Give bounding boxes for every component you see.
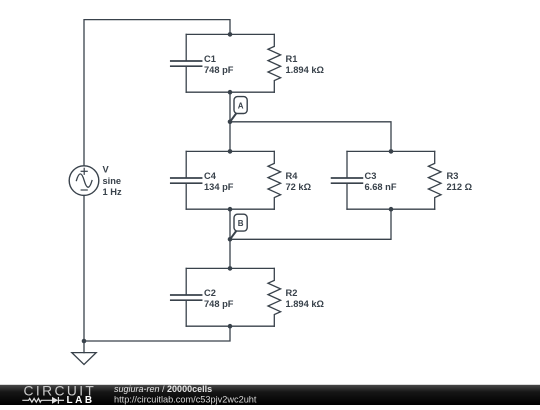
node dot top C1 <box>228 32 233 37</box>
label C4 <box>204 171 234 192</box>
svg-text:C1: C1 <box>204 54 216 64</box>
label C2 <box>204 288 234 309</box>
label R1 <box>286 54 325 75</box>
svg-text:R2: R2 <box>286 288 298 298</box>
wire node A vertical <box>229 92 231 151</box>
label C3 <box>365 171 397 192</box>
svg-text:sine: sine <box>103 176 122 186</box>
resistor R1 <box>230 34 281 92</box>
wire node B horizontal to C3 <box>230 209 391 239</box>
svg-text:212 Ω: 212 Ω <box>447 182 473 192</box>
voltage source V <box>69 166 99 196</box>
svg-text:R4: R4 <box>286 171 299 181</box>
svg-text:C2: C2 <box>204 288 216 298</box>
svg-text:134 pF: 134 pF <box>204 182 234 192</box>
node dot bottom C1 <box>228 90 233 95</box>
resistor R2 <box>230 268 281 326</box>
svg-text:V: V <box>103 165 110 175</box>
svg-text:C3: C3 <box>365 171 377 181</box>
logo diode <box>52 397 58 404</box>
capacitor C4 <box>171 151 230 209</box>
svg-text:72 kΩ: 72 kΩ <box>286 182 312 192</box>
svg-text:http://circuitlab.com/c53pjv2w: http://circuitlab.com/c53pjv2wc2uht <box>114 394 257 404</box>
svg-text:1 Hz: 1 Hz <box>103 187 122 197</box>
svg-text:LAB: LAB <box>67 395 95 405</box>
svg-text:R1: R1 <box>286 54 298 64</box>
node A junction <box>228 120 233 125</box>
svg-text:R3: R3 <box>447 171 459 181</box>
svg-text:6.68 nF: 6.68 nF <box>365 182 397 192</box>
svg-text:sugiura-ren / 20000cells: sugiura-ren / 20000cells <box>114 384 212 394</box>
node B junction <box>228 237 233 242</box>
capacitor C2 <box>171 268 230 326</box>
resistor R4 <box>230 151 281 209</box>
node dot top C4 <box>228 149 233 154</box>
svg-text:1.894 kΩ: 1.894 kΩ <box>286 299 325 309</box>
svg-text:A: A <box>238 102 244 111</box>
label C1 <box>204 54 234 75</box>
node dot bottom C4 <box>228 207 233 212</box>
wire bottom return <box>84 326 230 341</box>
resistor R3 <box>391 151 441 209</box>
capacitor C3 <box>332 151 391 209</box>
logo resistor squiggle <box>22 397 64 404</box>
label V source <box>103 165 122 198</box>
wire left rail bottom <box>83 195 85 352</box>
svg-text:748 pF: 748 pF <box>204 65 234 75</box>
node B label <box>230 214 247 239</box>
capacitor C1 <box>171 34 230 92</box>
label R2 <box>286 288 325 309</box>
wire node A horizontal to C3 <box>230 122 391 152</box>
node A label <box>230 97 247 122</box>
wire left rail top <box>84 20 230 166</box>
svg-text:B: B <box>238 219 244 228</box>
svg-text:1.894 kΩ: 1.894 kΩ <box>286 65 325 75</box>
node dot top C3 <box>389 149 394 154</box>
node dot ground <box>82 339 87 344</box>
label R3 <box>447 171 473 192</box>
node dot bottom C2 <box>228 324 233 329</box>
svg-text:748 pF: 748 pF <box>204 299 234 309</box>
wire node B vertical <box>229 209 231 268</box>
svg-text:C4: C4 <box>204 171 217 181</box>
label R4 <box>286 171 312 192</box>
ground <box>72 353 96 365</box>
node dot bottom C3 <box>389 207 394 212</box>
node dot top C2 <box>228 266 233 271</box>
